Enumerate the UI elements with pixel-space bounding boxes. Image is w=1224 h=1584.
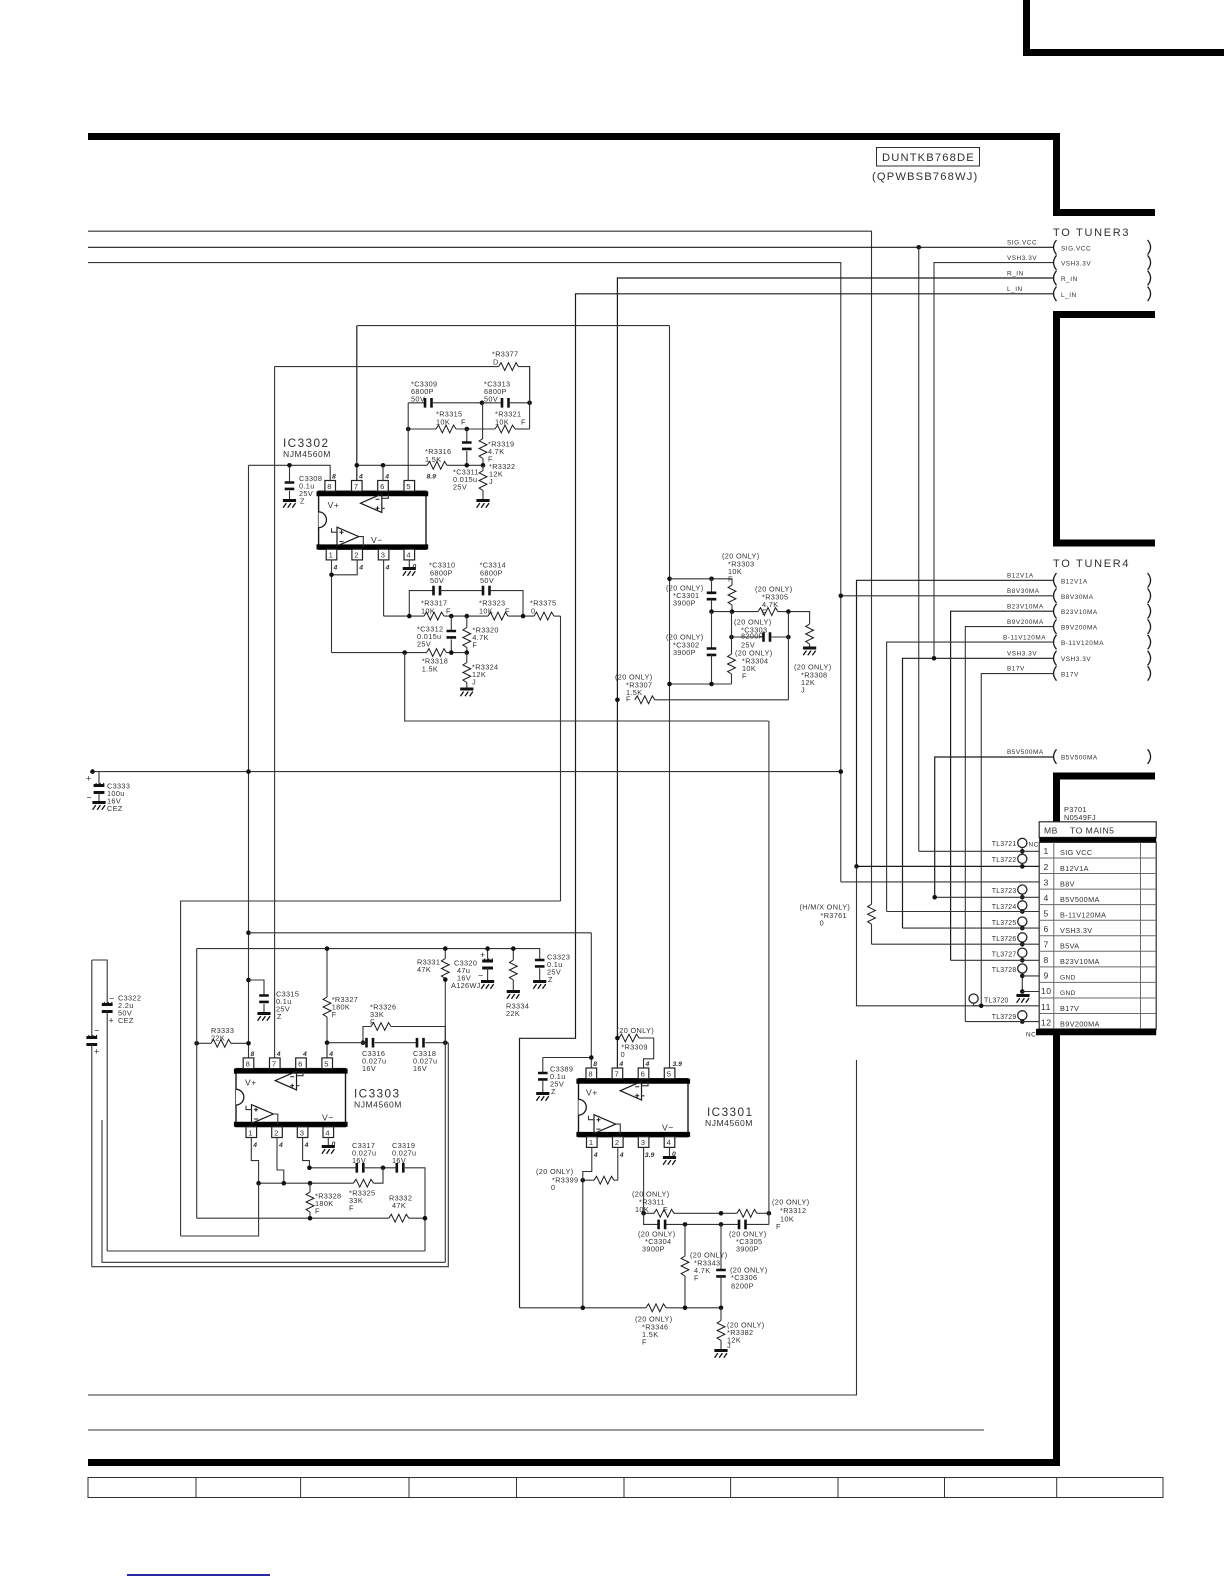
wire bottom-left return y1266.7 <box>92 1043 449 1267</box>
capacitor C3302 <box>666 612 716 684</box>
capacitor C3315 <box>249 980 300 1021</box>
pin 8 of IC3303 <box>243 1051 254 1069</box>
node output loop tap x404.7 <box>402 650 407 655</box>
node C3312 top <box>449 614 454 619</box>
wire pin6 vertical <box>382 465 384 480</box>
pin 3 of IC3303 <box>297 1127 308 1149</box>
connector row VSH3.3V (tuner3) <box>1007 255 1151 270</box>
wire x196.7 rail <box>196 949 198 1219</box>
svg-text:4: 4 <box>1044 893 1049 903</box>
resistor R3331 <box>417 949 449 1263</box>
pin 5 of IC3303 <box>322 1051 333 1069</box>
node y611.6 x711.5 <box>709 609 714 614</box>
wire inverting line y652.6 <box>332 652 467 654</box>
wire B-11V120MA row to x886.6 <box>887 642 1054 911</box>
op-amp A triangle (upper) <box>620 1081 641 1100</box>
svg-text:VSH3.3V: VSH3.3V <box>1061 261 1091 268</box>
svg-text:V+: V+ <box>245 1078 257 1088</box>
node y611.6 x788.4 <box>786 609 791 614</box>
node y1218.2 x310 <box>308 1216 313 1221</box>
capacitor (electrolytic, left rail) <box>86 960 99 1267</box>
connector row B23V10MA <box>1007 604 1151 619</box>
svg-text:1: 1 <box>1044 846 1049 856</box>
svg-text:50V: 50V <box>430 576 444 585</box>
capacitor C3313 <box>482 380 530 408</box>
wire bottom long y1430 <box>88 1429 984 1431</box>
svg-text:1.5K: 1.5K <box>422 665 438 674</box>
svg-text:25V: 25V <box>453 483 467 492</box>
wire feed to IC3303 pin7 (x274.6) <box>274 367 276 1058</box>
op-amp B triangle (lower) <box>252 1105 274 1124</box>
table row separators <box>1039 858 1156 1014</box>
svg-text:V−: V− <box>322 1113 334 1123</box>
svg-text:B8V30MA: B8V30MA <box>1061 594 1094 601</box>
capacitor C3389 <box>536 1058 573 1101</box>
svg-text:11: 11 <box>1041 1002 1051 1012</box>
capacitor C3305 <box>729 1220 766 1254</box>
capacitor C3323 <box>533 953 570 989</box>
wire SIG.VCC long line <box>88 246 1054 248</box>
svg-text:4: 4 <box>619 1152 624 1159</box>
wire bottom enclosure y1395 <box>88 1060 857 1395</box>
wire V+ line y948.6 <box>197 949 540 960</box>
connector row L_IN <box>1007 286 1151 301</box>
node R3331 top <box>443 946 448 951</box>
resistor R3761 (H/M/X ONLY) <box>800 903 876 945</box>
node cap line junction x482 <box>480 401 485 406</box>
svg-text:TL3727: TL3727 <box>992 951 1017 958</box>
svg-text:N0549FJ: N0549FJ <box>1064 813 1096 822</box>
svg-text:2: 2 <box>274 1128 278 1137</box>
svg-text:R_IN: R_IN <box>1007 270 1024 277</box>
table pin numbers <box>1041 846 1052 1027</box>
svg-text:NJM4560M: NJM4560M <box>354 1100 402 1110</box>
wire R3761 bottom to row7 <box>871 924 873 944</box>
svg-text:+: + <box>94 1047 99 1057</box>
node SIG.VCC junction x918.75 <box>916 245 921 250</box>
table header MB TO MAIN5 <box>1039 822 1156 838</box>
test point TL3721 <box>992 838 1039 853</box>
node R3307 left on R_IN <box>615 698 620 703</box>
wire table row3 feed <box>841 881 1039 883</box>
wire mid branch y932.8 <box>249 932 592 934</box>
capacitor C3303 <box>732 618 789 650</box>
resistor R3399 <box>536 1167 618 1192</box>
resistor R3324 <box>460 653 498 697</box>
svg-text:VSH3.3V: VSH3.3V <box>1060 926 1092 935</box>
svg-text:SIG.VCC: SIG.VCC <box>1061 245 1091 252</box>
resistor R3320 <box>463 616 499 653</box>
node y1307.8 x685 <box>683 1306 688 1311</box>
svg-text:VSH3.3V: VSH3.3V <box>1007 650 1037 657</box>
svg-text:12: 12 <box>1041 1017 1052 1027</box>
wire y684 <box>670 683 732 685</box>
board edge: top-right corner piece of adjacent frame <box>1023 0 1224 53</box>
svg-text:B23V10MA: B23V10MA <box>1007 604 1044 611</box>
node C3308 tap <box>287 463 292 468</box>
svg-text:B9V200MA: B9V200MA <box>1060 1019 1100 1028</box>
wire B17V row to x981.25 <box>981 674 1053 1006</box>
svg-text:7: 7 <box>272 1059 276 1068</box>
svg-text:TO TUNER3: TO TUNER3 <box>1053 227 1130 239</box>
svg-text:B17V: B17V <box>1007 666 1025 673</box>
resistor R3304 <box>728 649 773 685</box>
wire table row10 stub <box>1022 991 1039 993</box>
wire table row9 stub <box>1022 975 1039 977</box>
svg-text:1: 1 <box>589 1138 593 1147</box>
svg-text:25V: 25V <box>417 640 431 649</box>
svg-text:8: 8 <box>588 1070 592 1079</box>
svg-text:8: 8 <box>332 474 336 481</box>
svg-text:0: 0 <box>621 1050 625 1059</box>
wire pin3 vertical <box>383 560 385 616</box>
node R3327 top on V+ line <box>325 946 330 951</box>
svg-text:+: + <box>480 950 485 960</box>
svg-text:F: F <box>315 1207 320 1216</box>
ground at IC3303 pin4 <box>322 1138 335 1154</box>
wire bottom-left return y1251 <box>107 1250 425 1252</box>
connector row R_IN <box>1007 270 1151 285</box>
svg-text:F: F <box>694 1274 699 1283</box>
pin 3 of IC3302 <box>378 549 389 571</box>
node R3320 top <box>465 614 470 619</box>
svg-text:4: 4 <box>406 551 410 560</box>
test point TL3724 <box>992 901 1027 914</box>
svg-text:47K: 47K <box>417 965 431 974</box>
svg-text:10K: 10K <box>780 1215 794 1224</box>
table column dividers <box>1054 842 1141 1029</box>
node B8V junction <box>839 594 844 599</box>
svg-text:L_IN: L_IN <box>1061 292 1077 299</box>
board edge: right edge above TUNER3 notch <box>1053 140 1155 213</box>
wire pin5 vertical <box>407 403 409 481</box>
capacitor C3314 <box>480 561 523 617</box>
svg-text:D: D <box>493 358 499 367</box>
wire x768.9 drop <box>768 721 770 1224</box>
node R3399 left <box>581 1178 586 1183</box>
svg-text:4: 4 <box>618 1061 623 1068</box>
svg-text:7: 7 <box>354 482 358 491</box>
resistor R3375 <box>530 599 556 620</box>
svg-text:B5V500MA: B5V500MA <box>1007 749 1044 756</box>
svg-text:V−: V− <box>371 535 383 545</box>
wire table row7 feed <box>872 943 1040 945</box>
svg-text:0: 0 <box>820 919 824 928</box>
node y1307.8 x721 <box>719 1306 724 1311</box>
svg-text:B-11V120MA: B-11V120MA <box>1060 910 1106 919</box>
svg-text:B5V500MA: B5V500MA <box>1061 755 1098 762</box>
wire table row4 feed <box>935 896 1039 898</box>
svg-text:J: J <box>472 678 476 687</box>
svg-text:(20 ONLY): (20 ONLY) <box>617 1026 654 1035</box>
resistor R3334 <box>506 949 529 1018</box>
wire VSH3.3V row to x902.5 <box>903 658 1054 928</box>
resistor R3332 <box>389 1194 412 1223</box>
op-amp U IC3302 body <box>283 436 428 549</box>
node C3311 bottom <box>465 463 470 468</box>
resistor R3326 <box>363 1003 445 1043</box>
test point TL3729 <box>992 1011 1027 1024</box>
capacitor C3333 <box>86 772 130 813</box>
svg-text:B23V10MA: B23V10MA <box>1061 609 1098 616</box>
pin 4 of IC3301 <box>664 1137 676 1158</box>
svg-text:4: 4 <box>593 1152 598 1159</box>
resistor R3318 <box>422 649 448 674</box>
wire table row1 feed <box>919 850 1039 852</box>
test point TL3722 <box>992 854 1027 869</box>
svg-text:R_IN: R_IN <box>1061 276 1078 283</box>
svg-text:5: 5 <box>324 1059 328 1068</box>
svg-text:Z: Z <box>277 1012 282 1021</box>
resistor R3323 <box>479 599 510 620</box>
capacitor C3311 <box>453 429 479 492</box>
svg-text:TL3729: TL3729 <box>992 1014 1017 1021</box>
node y1307.8 x582.8 <box>581 1306 586 1311</box>
node C3303 left <box>729 635 734 640</box>
table body frame <box>1039 842 1156 1029</box>
test point TL3728 chain to GND rows <box>992 964 1027 994</box>
svg-text:TO MAIN5: TO MAIN5 <box>1070 825 1114 835</box>
pin 2 of IC3303 <box>272 1127 283 1149</box>
ground at IC3301 pin4 <box>663 1147 676 1164</box>
node y1183.2 x283.8 <box>282 1181 287 1186</box>
svg-text:NJM4560M: NJM4560M <box>705 1118 753 1128</box>
svg-text:Z: Z <box>551 1087 556 1096</box>
node x669.5 / y578.8 <box>667 577 672 582</box>
connector row B-11V120MA <box>1003 634 1151 649</box>
svg-text:V+: V+ <box>586 1088 598 1098</box>
table bottom thick bar <box>1036 1029 1156 1035</box>
svg-text:4: 4 <box>325 1128 329 1137</box>
resistor R3303 <box>722 552 759 612</box>
svg-text:2: 2 <box>354 551 358 560</box>
wire y578.8 <box>670 579 733 585</box>
test point TL3727 <box>992 948 1027 962</box>
wire inverting input line with R3316 <box>357 464 483 466</box>
svg-text:MB: MB <box>1044 825 1058 835</box>
svg-text:4: 4 <box>276 1051 281 1058</box>
wire table row12 feed <box>965 1021 1039 1023</box>
svg-text:3: 3 <box>641 1138 645 1147</box>
ground at IC3302 pin4 <box>403 560 416 576</box>
node R3315 left / pin5 wire <box>406 427 411 432</box>
wire B9V200MA row to x965.3 <box>965 627 1053 1022</box>
PWB name box DUNTKB768DE <box>872 148 980 184</box>
svg-text:16V: 16V <box>362 1064 376 1073</box>
svg-text:F: F <box>742 672 747 681</box>
node C3310 loop bottom <box>407 614 412 619</box>
svg-text:B17V: B17V <box>1060 1004 1079 1013</box>
node row2 junction <box>854 864 859 869</box>
wire IC3301 pin3 drop <box>643 1147 645 1213</box>
svg-text:3900P: 3900P <box>642 1245 665 1254</box>
svg-text:J: J <box>727 1341 731 1350</box>
svg-text:0: 0 <box>551 1183 555 1192</box>
capacitor C3319 <box>392 1141 416 1173</box>
svg-text:8200P: 8200P <box>731 1282 754 1291</box>
node R3326 left drop <box>361 1040 366 1045</box>
wire table row5 feed <box>887 911 1040 913</box>
resistor R3327 <box>323 949 358 1058</box>
svg-text:B12V1A: B12V1A <box>1060 864 1089 873</box>
svg-text:7: 7 <box>615 1070 619 1079</box>
table header thick divider <box>1039 837 1156 842</box>
svg-text:DUNTKB768DE: DUNTKB768DE <box>882 152 975 164</box>
svg-text:CEZ: CEZ <box>107 804 123 813</box>
node R3334 top <box>511 946 516 951</box>
svg-text:TO TUNER4: TO TUNER4 <box>1053 558 1130 570</box>
node y684 x711.5 <box>709 682 714 687</box>
resistor R3319 <box>479 403 514 466</box>
node y1183.2 x258.6 <box>256 1181 261 1186</box>
node y1213.3 x721 <box>719 1211 724 1216</box>
svg-text:50V: 50V <box>480 576 494 585</box>
svg-text:3: 3 <box>300 1128 304 1137</box>
node C3318 right / R3331 <box>443 1040 448 1045</box>
test point TL3723 <box>992 885 1027 900</box>
wire L_IN from x575.5 <box>520 294 1054 1308</box>
pin 7 of IC3302 <box>352 474 364 492</box>
wire x788.4 <box>787 612 789 700</box>
svg-text:+: + <box>86 774 91 784</box>
svg-text:TL3726: TL3726 <box>992 936 1017 943</box>
svg-text:VSH3.3V: VSH3.3V <box>1061 656 1091 663</box>
svg-text:V−: V− <box>662 1123 674 1133</box>
pin 1 of IC3302 <box>326 549 337 571</box>
svg-text:F: F <box>521 418 526 427</box>
resistor R3309 <box>617 1026 654 1068</box>
svg-text:NC: NC <box>1029 841 1039 848</box>
node y611.6 x732 <box>730 609 735 614</box>
node C3314 loop bottom <box>521 614 526 619</box>
svg-text:IC3301: IC3301 <box>707 1105 753 1119</box>
wire IC3301 pin1 jog <box>583 1147 592 1307</box>
svg-text:TL3723: TL3723 <box>992 888 1017 895</box>
wire V+ rail x248.5 down to IC3303 pin8 <box>248 465 250 1057</box>
svg-text:F: F <box>349 1204 354 1213</box>
board edge: main top bar <box>88 133 1060 140</box>
resistor R3308 <box>794 624 831 695</box>
svg-text:−: − <box>478 971 483 981</box>
svg-text:TL3724: TL3724 <box>992 904 1017 911</box>
node y1167.8 x383 <box>381 1166 386 1171</box>
svg-text:TL3722: TL3722 <box>992 857 1017 864</box>
svg-text:5: 5 <box>667 1070 671 1079</box>
svg-text:F: F <box>776 1222 781 1231</box>
svg-text:3900P: 3900P <box>736 1245 759 1254</box>
svg-text:*R3761: *R3761 <box>821 911 847 920</box>
svg-text:B23V10MA: B23V10MA <box>1060 957 1100 966</box>
svg-text:B-11V120MA: B-11V120MA <box>1003 634 1046 641</box>
svg-text:CEZ: CEZ <box>118 1016 134 1025</box>
node pin6 line junction <box>381 463 386 468</box>
svg-text:B5V500MA: B5V500MA <box>1060 895 1100 904</box>
op-amp U IC3303 body <box>234 1069 402 1127</box>
resistor R3312 <box>737 1198 810 1232</box>
wire SIG.VCC drop to table row1 <box>918 247 920 851</box>
svg-text:−: − <box>94 1026 99 1036</box>
pin 4 of IC3302 <box>404 549 417 570</box>
node R3377/C3313 corner <box>527 401 532 406</box>
capacitor C3320 <box>451 949 494 990</box>
pin 7 of IC3303 <box>270 1051 281 1069</box>
resistor R3315 <box>408 410 495 433</box>
wire IC3301 pin8 feed <box>543 933 592 1068</box>
svg-text:TL3720: TL3720 <box>984 997 1009 1004</box>
svg-text:GND: GND <box>1060 990 1076 997</box>
node VSH3.3V tuner4 junction x934 <box>932 656 937 661</box>
wire C3333 supply line y771.6 <box>92 771 841 773</box>
node y1213.3 x768.9 <box>767 1211 772 1216</box>
svg-text:L_IN: L_IN <box>1007 286 1023 293</box>
svg-text:7: 7 <box>1044 940 1049 950</box>
resistor R3321 <box>495 367 530 433</box>
wire VSH3.3V stub from x934 to tuner3 paren <box>934 263 1054 659</box>
svg-text:GND: GND <box>1060 975 1076 982</box>
svg-text:5: 5 <box>406 482 410 491</box>
wire B5V500MA row to x934.7 <box>935 757 1054 897</box>
pin 2 of IC3302 <box>352 549 363 571</box>
capacitor C3304 <box>638 1220 675 1254</box>
svg-text:NC: NC <box>1026 1032 1036 1039</box>
wire output line y1307.8 <box>520 1307 722 1309</box>
table net names <box>1060 848 1106 1028</box>
node V+ rail taps <box>246 769 251 774</box>
svg-text:3900P: 3900P <box>673 599 696 608</box>
svg-text:TL3728: TL3728 <box>992 967 1017 974</box>
svg-text:8: 8 <box>1044 955 1049 965</box>
wire B23V10MA row to x950.6 <box>951 611 1054 960</box>
wire pin1 net bottom loop y1236 <box>181 1183 259 1236</box>
svg-text:Z: Z <box>300 497 305 506</box>
svg-text:B9V200MA: B9V200MA <box>1061 625 1098 632</box>
test point TL3726 <box>992 933 1027 947</box>
svg-text:B17V: B17V <box>1061 671 1079 678</box>
svg-text:−: − <box>87 793 92 803</box>
resistor R3322 <box>476 462 515 508</box>
node y1167.8 x309.4 <box>307 1166 312 1171</box>
wire V+ segment to pin8 <box>249 465 331 480</box>
wire feedback line y1218.2 <box>197 1217 425 1219</box>
svg-text:4: 4 <box>333 565 338 572</box>
svg-text:4: 4 <box>358 474 363 481</box>
node pin5 line x327 <box>325 1040 330 1045</box>
node row4 junction <box>932 895 937 900</box>
svg-text:(QPWBSB768WJ): (QPWBSB768WJ) <box>872 171 978 183</box>
wire B12V1A row to x856.5 <box>857 580 1054 866</box>
svg-text:22K: 22K <box>211 1034 225 1043</box>
svg-text:F: F <box>332 1010 337 1019</box>
node y1240 x721 <box>719 1222 724 1227</box>
wire bottom-left return y1262.3 <box>102 1120 445 1262</box>
wire VSH3.3V long line to x840.8 <box>88 263 841 882</box>
wire table row11 feed B17V <box>857 866 1040 1005</box>
capacitor C3312 <box>417 616 456 653</box>
pin 6 of IC3302 <box>378 474 390 492</box>
svg-text:F: F <box>626 695 631 704</box>
svg-text:10: 10 <box>1041 986 1052 996</box>
capacitor C3316 <box>362 1038 386 1073</box>
svg-text:8200P: 8200P <box>741 632 764 641</box>
svg-text:8: 8 <box>246 1059 250 1068</box>
wire R3375 output drop x560.5 <box>181 616 561 1236</box>
svg-text:2: 2 <box>615 1138 619 1147</box>
wire IC3301 pin2 drop <box>617 1147 619 1180</box>
board edge: bottom bar <box>88 1459 1060 1466</box>
wire cap line y1167.8 <box>309 1168 425 1251</box>
test point TL3720 <box>969 994 1009 1006</box>
wire IC3303 pin2 jog <box>277 1138 284 1184</box>
